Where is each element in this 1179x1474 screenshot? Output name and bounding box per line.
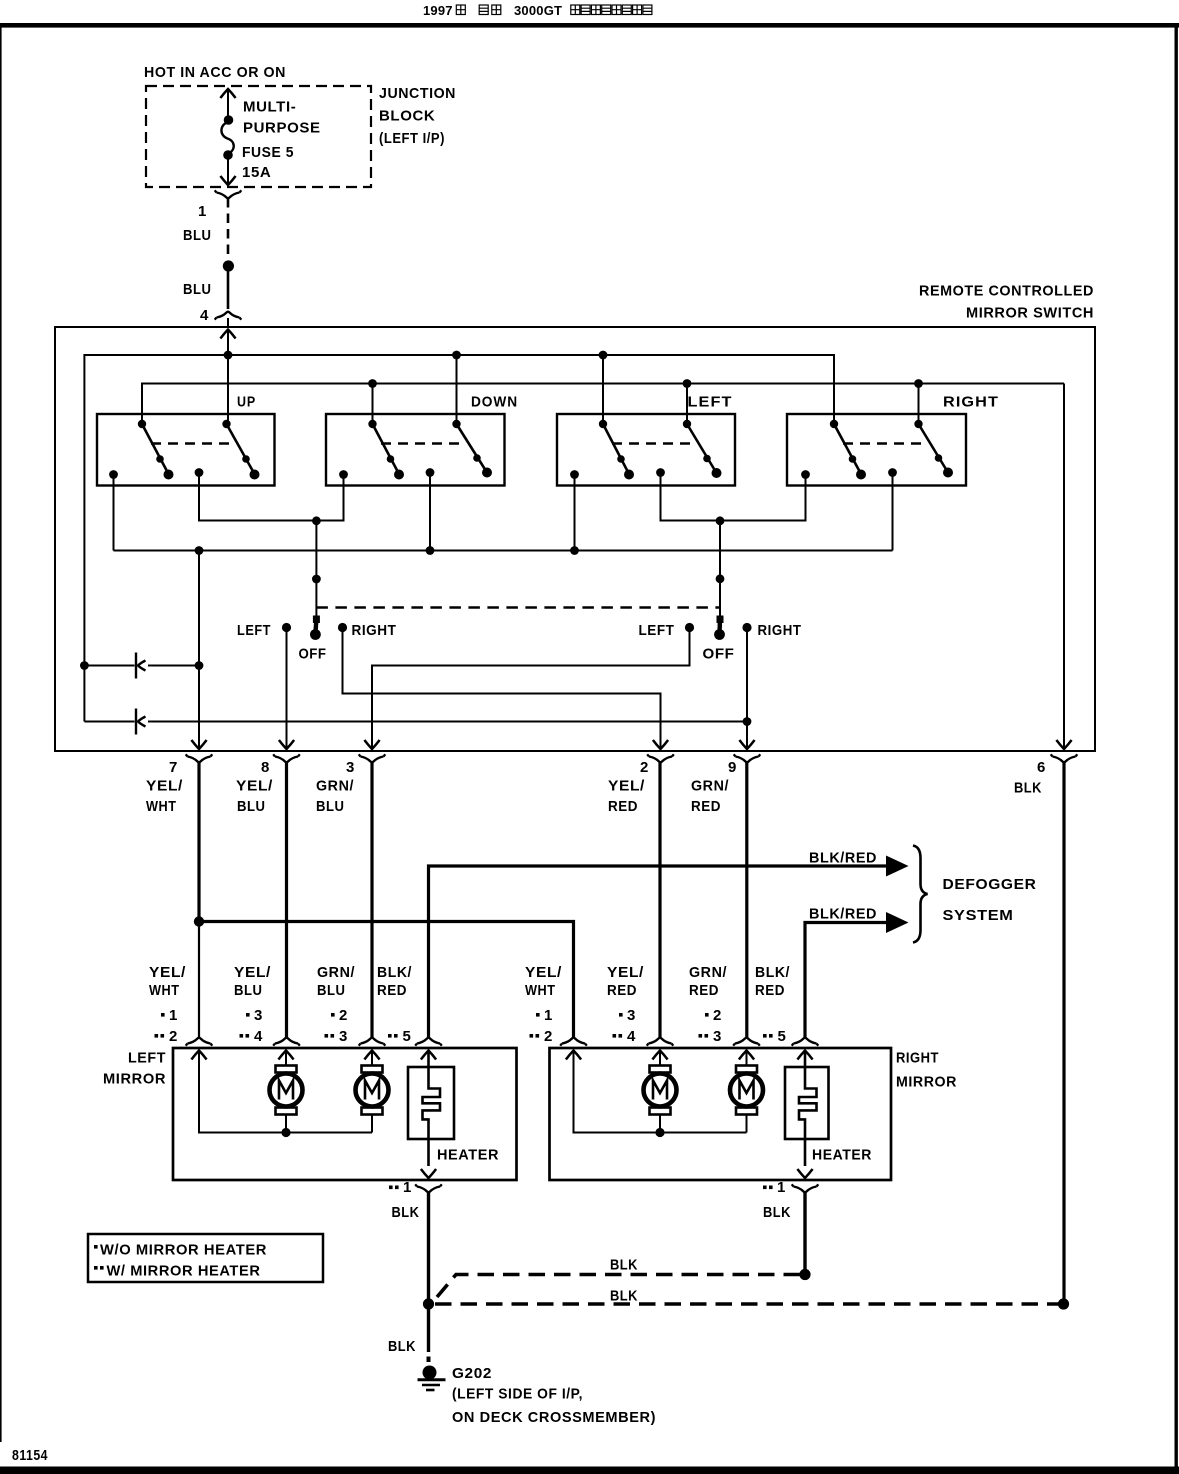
switch UP left arm [138,420,174,480]
svg-text:8: 8 [261,759,270,776]
wire YEL/RED pin2 down [658,762,661,1038]
wire pin6 from bus2 to box bottom [1063,384,1065,749]
fuse F5 arrow down [220,176,235,185]
svg-text:GRN/: GRN/ [691,778,729,795]
node pin7 wire / terminal row [195,661,204,670]
left mirror motor M1 (up/down) [270,1066,303,1115]
svg-text:BLK: BLK [388,1338,416,1355]
left heater pin cup below box [415,1184,442,1192]
note box [88,1234,323,1282]
inline connector terminal lower [136,709,146,735]
node bus2 / LEFT right arm [683,379,692,388]
splice node on BLU wire [223,260,234,271]
wire left OFF RIGHT contact to pin 2 [343,631,661,748]
svg-text:YEL/: YEL/ [525,964,562,981]
node left OFF common splice [312,575,321,584]
node YEL/WHT branch splice [194,916,204,926]
right heater pin cup below box [792,1184,819,1192]
left mirror wire motor2 top [371,1051,373,1065]
node right mirror common / motor1 [655,1128,664,1137]
right mirror motor M1 [644,1066,677,1115]
svg-text:UP: UP [237,394,256,411]
svg-text:GRN/: GRN/ [316,778,354,795]
node row521R / right OFF common [716,516,725,525]
left mirror YEL/BLU entry arrow [278,1051,293,1060]
right mirror motor M2 [730,1066,763,1115]
node ground splice [423,1298,434,1309]
svg-text:MULTI-: MULTI- [243,99,296,116]
right OFF switch arm [714,616,725,640]
svg-text:BLK/: BLK/ [377,964,412,981]
switch UP fixed contact mid [195,468,204,477]
svg-text:1: 1 [169,1007,178,1024]
left mirror YEL/WHT entry arrow [191,1051,206,1060]
svg-text:5: 5 [403,1028,412,1045]
wire row550 (motor common row) [114,550,893,552]
svg-text:3: 3 [627,1007,636,1024]
svg-text:BLK/RED: BLK/RED [809,906,877,923]
right mirror wire motor1 top [659,1051,661,1065]
svg-text:7: 7 [169,759,178,776]
wire right OFF LEFT contact to pin 3 [372,631,690,748]
wire YEL/BLU pin8 down [285,762,288,1038]
right mirror wire motor2 bottom to common [746,1115,748,1133]
svg-text:FUSE 5: FUSE 5 [242,144,294,161]
svg-text:RED: RED [755,982,785,999]
switch UP right arm [222,420,259,480]
node bus1 / LEFT left arm [599,351,608,360]
pin 3 connector cup [359,754,386,762]
right mirror pin 3/4 connector cup [647,1038,674,1046]
svg-text:ON DECK CROSSMEMBER): ON DECK CROSSMEMBER) [452,1409,656,1426]
pin 3 arrow [364,740,379,749]
switch DOWN right arm [452,420,492,478]
pin note *1 **2 (left YEL/WHT) [155,1013,165,1038]
svg-text:BLOCK: BLOCK [379,108,435,125]
pin note *2 **3 (left GRN/BLU) [325,1013,335,1038]
right mirror GRN/RED entry arrow [739,1051,754,1060]
svg-text:HEATER: HEATER [437,1147,499,1164]
switch LEFT coupling dashes [612,442,692,444]
wire splice to inline terminal upper [84,665,134,667]
node right OFF common splice [716,574,725,583]
svg-text:BLK: BLK [1014,780,1042,797]
pin 6 arrow [1056,740,1071,749]
switch DOWN fixed contact left [339,470,348,479]
wire bus2 to LEFT right arm [686,384,688,425]
wire pin4 down to bus1 [227,330,229,424]
node bus1-drop splice upper [80,661,89,670]
left OFF contact RIGHT [338,623,347,632]
node right heater / dashed BLK row [799,1269,810,1280]
svg-text:OFF: OFF [299,646,327,663]
right mirror pin 5 connector cup [792,1038,819,1046]
pin 8 connector cup [273,754,300,762]
svg-text:BLK/: BLK/ [755,964,790,981]
pin 9 arrow [739,740,754,749]
svg-text:3: 3 [339,1028,348,1045]
svg-text:YEL/: YEL/ [146,778,183,795]
svg-text:15A: 15A [242,164,271,181]
svg-text:BLK: BLK [610,1257,638,1274]
left OFF switch arm [310,616,321,640]
svg-text:HOT IN ACC OR ON: HOT IN ACC OR ON [144,64,286,81]
node row521L / left OFF common [312,516,321,525]
left mirror wire motor2 bottom to common [371,1115,373,1133]
svg-text:3: 3 [254,1007,263,1024]
left mirror BLK/RED entry arrow [421,1051,436,1060]
svg-text:RED: RED [607,982,637,999]
left mirror pin 1/2 connector cup [186,1038,213,1046]
switch UP box [97,414,275,486]
svg-text:BLU: BLU [237,798,266,815]
pin note *3 **4 (right YEL/RED) [613,1013,623,1038]
node pin6 BLK / dashed row [1058,1298,1069,1309]
right mirror wire motor2 top [746,1051,748,1065]
svg-text:2: 2 [169,1028,178,1045]
svg-text:RED: RED [691,798,721,815]
wire bus2 to RIGHT right arm [918,384,920,425]
svg-text:BLU: BLU [316,798,345,815]
page left border [0,23,2,1442]
pin note *1 **2 (right YEL/WHT) [530,1013,540,1038]
wire left OFF common down [315,521,317,618]
switch UP coupling dashes [151,442,231,444]
defogger arrow lower [886,912,909,933]
svg-text:1: 1 [777,1179,786,1196]
svg-text:1: 1 [403,1179,412,1196]
svg-text:HEATER: HEATER [812,1147,872,1164]
left mirror box [173,1048,517,1180]
svg-text:BLK/RED: BLK/RED [809,850,877,867]
wire GRN/RED pin9 down [745,762,748,1038]
svg-text:RIGHT: RIGHT [352,622,397,639]
node row550 / pin7 [195,546,204,555]
pin 2 connector cup [647,754,674,762]
wire terminal upper to pin7 wire [148,665,199,667]
svg-text:BLK: BLK [610,1288,638,1305]
svg-text:DEFOGGER: DEFOGGER [943,876,1037,893]
bus2 horizontal (lower supply bus) [142,384,1064,425]
right mirror YEL/RED entry arrow [652,1051,667,1060]
svg-text:2: 2 [713,1007,722,1024]
svg-text:W/O MIRROR HEATER: W/O MIRROR HEATER [100,1242,267,1259]
switch LEFT box [557,414,735,486]
svg-text:LEFT: LEFT [639,622,675,639]
svg-text:81154: 81154 [12,1447,48,1464]
switch LEFT left arm [599,420,634,480]
pin note **5 (right BLK/RED) [763,1034,773,1038]
right heater exit arrow [797,1169,812,1178]
svg-text:LEFT: LEFT [237,622,271,639]
svg-text:MIRROR SWITCH: MIRROR SWITCH [966,305,1094,322]
svg-text:RED: RED [377,982,407,999]
svg-text:BLU: BLU [317,982,346,999]
svg-text:RED: RED [689,982,719,999]
wire row721 terminal to pin9 wire [148,721,747,723]
fuse F5 wire bottom [227,156,229,184]
switch RIGHT left arm [830,420,866,480]
svg-text:YEL/: YEL/ [234,964,271,981]
svg-text:WHT: WHT [525,982,556,999]
switch LEFT fixed contact left [570,470,579,479]
wire BLK/RED left mirror to defogger [429,866,889,1038]
wire pin4 cup stub to switch box [227,318,229,327]
wire bus2 to DOWN left arm [372,384,374,425]
wire BLU dashed (pin1 to splice) [227,198,230,259]
node left mirror common / motor1 [281,1128,290,1137]
svg-text:SYSTEM: SYSTEM [943,907,1014,924]
node bus1 / DOWN right arm [452,351,461,360]
svg-text:W/ MIRROR HEATER: W/ MIRROR HEATER [107,1263,261,1280]
svg-text:YEL/: YEL/ [607,964,644,981]
wire BLU solid (splice to pin4) [227,271,230,309]
connector pin 4 cup at switch [215,312,242,320]
wire pin7 (row550 to box bottom) [198,551,200,749]
ground G202 symbol [418,1357,446,1391]
right mirror box [550,1048,892,1180]
svg-text:MIRROR: MIRROR [896,1074,957,1091]
left OFF contact LEFT [282,623,291,632]
svg-text:YEL/: YEL/ [608,778,645,795]
svg-text:(LEFT SIDE OF I/P,: (LEFT SIDE OF I/P, [452,1386,583,1403]
svg-text:9: 9 [728,759,737,776]
page bottom border bar [0,1467,1179,1474]
note line 2 **W/ MIRROR HEATER [94,1266,104,1270]
page right border [1175,25,1178,1469]
wire left OFF LEFT contact to pin 8 [286,631,288,748]
pin 6 connector cup [1051,754,1078,762]
wire BLK left heater to ground splice [427,1192,430,1302]
fuse F5 node top [224,115,234,125]
wire BLK/RED right mirror to defogger [805,923,888,1038]
svg-text:2: 2 [544,1028,553,1045]
svg-text:4: 4 [627,1028,636,1045]
switch RIGHT fixed contact left [801,470,810,479]
switch DOWN coupling dashes [381,442,461,444]
switch RIGHT fixed contact mid [888,468,897,477]
wire right OFF common down [719,521,721,618]
defogger brace [913,846,928,943]
svg-text:YEL/: YEL/ [149,964,186,981]
junction block dashed box [146,86,371,187]
pin 8 arrow [279,740,294,749]
node row550 / LEFT fixed-left [570,546,579,555]
svg-text:WHT: WHT [149,982,180,999]
wire YEL/WHT branch to right mirror [199,922,574,1038]
right mirror BLK/RED entry arrow [797,1051,812,1060]
wire right OFF RIGHT contact to pin 9 [746,631,748,748]
svg-text:4: 4 [254,1028,263,1045]
wire BLK right heater down [803,1192,806,1271]
pin 7 connector cup [186,754,213,762]
wire LEFT fixed-mid to row521R to RIGHT fixed-left [661,473,806,521]
fuse F5 element (multi-purpose fuse 5 15A) [221,122,233,154]
svg-text:3: 3 [346,759,355,776]
wire bus1-drop corner to inline terminal lower [84,721,134,723]
left mirror wire motor1 top [285,1051,287,1065]
pin note **5 (left BLK/RED) [388,1034,398,1038]
right mirror pin 2/3 connector cup [733,1038,760,1046]
svg-text:GRN/: GRN/ [689,964,727,981]
svg-text:BLK: BLK [392,1204,420,1221]
svg-text:MIRROR: MIRROR [103,1071,166,1088]
wire bus1 to DOWN right arm [456,355,458,424]
right OFF contact LEFT [685,623,694,632]
left mirror wire YEL/WHT to common [199,1051,372,1133]
wire RIGHT fixed-mid down to row550 [892,473,894,551]
wire DOWN fixed-mid down to row550 [429,473,431,551]
svg-text:BLK: BLK [763,1204,791,1221]
right mirror heater element [799,1051,817,1166]
left mirror pin 5 connector cup [415,1038,442,1046]
svg-text:2: 2 [640,759,649,776]
svg-text:YEL/: YEL/ [236,778,273,795]
right mirror wire motor1 bottom to common [659,1115,661,1133]
svg-text:DOWN: DOWN [471,394,518,411]
right mirror heater box [785,1067,829,1139]
connector pin 1 cup below junction block [215,190,242,198]
left mirror heater element [423,1051,441,1166]
wire pin4 entry arrow into switch [220,330,235,339]
right mirror wire YEL/WHT to common [574,1051,747,1133]
left mirror pin 3/4 connector cup [273,1038,300,1046]
left mirror pin 2/3 connector cup [359,1038,386,1046]
left mirror heater box [408,1067,454,1139]
switch RIGHT right arm [914,420,953,478]
svg-text:LEFT: LEFT [128,1050,166,1067]
svg-text:2: 2 [339,1007,348,1024]
svg-text:JUNCTION: JUNCTION [379,85,456,102]
switch UP fixed contact left [109,470,118,479]
svg-text:REMOTE CONTROLLED: REMOTE CONTROLLED [919,283,1094,300]
right mirror YEL/WHT entry arrow [566,1051,581,1060]
node bus1 / pin4 [224,351,233,360]
svg-text:RIGHT: RIGHT [896,1050,939,1067]
left mirror GRN/BLU entry arrow [364,1051,379,1060]
pin note *3 **4 (left YEL/BLU) [240,1013,250,1038]
switch RIGHT box [787,414,966,486]
svg-text:1: 1 [198,203,207,220]
switch LEFT right arm [683,420,722,478]
wire bus1 to LEFT left arm [602,355,604,424]
node pin9 wire / row721 [743,717,752,726]
svg-text:RIGHT: RIGHT [758,622,802,639]
bus1 horizontal (upper supply bus) [84,355,834,722]
wire dashed BLK lower row [435,1302,1060,1306]
remote controlled mirror switch box [55,327,1095,751]
pin 7 arrow [191,740,206,749]
svg-text:BLU: BLU [234,982,263,999]
note line 1 *W/O MIRROR HEATER [94,1245,98,1249]
svg-text:1997: 1997 [423,3,453,18]
page top border bar [0,23,1179,28]
switch RIGHT coupling dashes [843,442,923,444]
node bus2 / DOWN left arm [368,379,377,388]
svg-text:LEFT: LEFT [688,394,733,411]
switch DOWN box [326,414,505,486]
svg-text:3000GT: 3000GT [514,3,562,18]
pin note *2 **3 (right GRN/RED) [699,1013,709,1038]
left mirror motor M2 (left/right) [356,1066,389,1115]
node row550 / DOWN fixed-mid [426,546,435,555]
node bus2 / RIGHT right arm [914,379,923,388]
wire dashed link between OFF commons [316,606,720,608]
fuse F5 node bottom [223,150,233,160]
inline connector terminal upper [136,653,146,679]
pin 2 arrow [653,740,668,749]
switch DOWN fixed contact mid [426,468,435,477]
wire UP fixed-left down to row550 [113,475,115,551]
left heater exit arrow [421,1169,436,1178]
svg-text:RED: RED [608,798,638,815]
right OFF contact RIGHT [742,623,751,632]
svg-text:GRN/: GRN/ [317,964,355,981]
pin 9 connector cup [734,754,761,762]
svg-text:BLU: BLU [183,227,212,244]
pin note **1 left [389,1186,399,1190]
svg-text:PURPOSE: PURPOSE [243,120,321,137]
wire YEL/WHT pin7 down [197,762,200,922]
defogger arrow upper [886,856,909,877]
svg-text:RIGHT: RIGHT [943,394,999,411]
svg-text:4: 4 [200,307,209,324]
wire UP fixed-mid to row521L to DOWN fixed-left [199,473,344,521]
switch LEFT fixed contact mid [656,468,665,477]
svg-text:BLU: BLU [183,281,212,298]
wire BLK pin6 down [1062,762,1065,1301]
svg-text:(LEFT I/P): (LEFT I/P) [379,130,445,147]
switch DOWN left arm [368,420,404,480]
wire dashed BLK upper row [437,1275,800,1298]
wire GRN/BLU pin3 down [370,762,373,1038]
wire LEFT fixed-left down to row550 [574,475,576,551]
pin note **1 right [763,1186,773,1190]
wire BLK splice to ground [427,1304,430,1352]
fuse F5 arrow up to HOT [220,89,235,98]
left mirror wire motor1 bottom to common [285,1115,287,1133]
fuse F5 wire top [227,89,229,118]
svg-text:6: 6 [1037,759,1046,776]
right mirror pin 1/2 connector cup [560,1038,587,1046]
svg-text:3: 3 [713,1028,722,1045]
svg-text:OFF: OFF [703,646,735,663]
svg-text:WHT: WHT [146,798,177,815]
svg-text:5: 5 [778,1028,787,1045]
svg-text:1: 1 [544,1007,553,1024]
svg-text:G202: G202 [452,1365,492,1382]
